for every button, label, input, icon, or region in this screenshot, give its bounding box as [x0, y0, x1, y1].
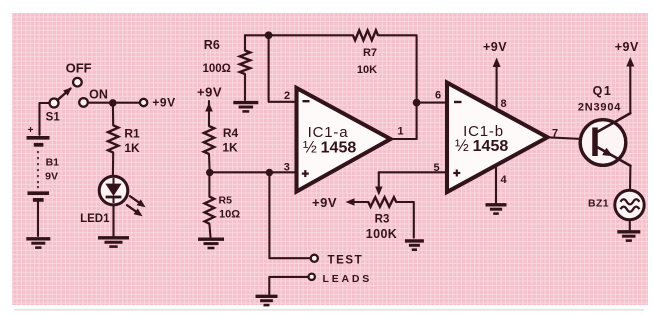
terminal LEADS [309, 274, 315, 280]
svg-text:7: 7 [552, 127, 558, 139]
svg-text:Q1: Q1 [593, 84, 613, 98]
label TEST [328, 255, 364, 267]
pin 8 label [501, 98, 507, 110]
LED light arrows [127, 196, 146, 216]
ground [256, 296, 278, 305]
label IC1-a [308, 124, 349, 141]
label BZ1 [588, 198, 609, 210]
wire [208, 154, 211, 173]
node junction [266, 169, 273, 176]
wire [244, 35, 246, 50]
terminal TEST [311, 255, 318, 262]
label OFF [66, 61, 92, 76]
wire [37, 202, 39, 236]
resistor R1 [108, 103, 118, 176]
svg-text:9V: 9V [45, 171, 58, 183]
pin 2 label [284, 90, 290, 102]
svg-text:1K: 1K [124, 141, 140, 155]
wire [396, 202, 414, 238]
ground [486, 205, 507, 214]
svg-text:5: 5 [433, 162, 439, 174]
svg-text:100Ω: 100Ω [203, 63, 231, 75]
wire [391, 138, 417, 140]
wire [209, 224, 210, 238]
label +9V [483, 40, 507, 54]
wire [244, 74, 246, 100]
wire [379, 171, 447, 173]
ground [405, 241, 424, 250]
pin 5 label [433, 162, 439, 174]
svg-text:+9V: +9V [152, 95, 175, 109]
LED LED1 [99, 176, 128, 205]
resistor R5 [205, 197, 215, 224]
wire [208, 173, 210, 197]
svg-text:10K: 10K [357, 64, 377, 76]
wire [210, 171, 296, 173]
svg-text:4: 4 [500, 174, 507, 186]
label S1 [46, 111, 61, 123]
node junction [206, 169, 213, 176]
svg-text:1: 1 [397, 126, 403, 138]
label +9V [197, 85, 222, 100]
svg-text:LEADS: LEADS [323, 273, 373, 285]
svg-text:2: 2 [284, 90, 290, 102]
label R3 [375, 213, 390, 225]
label R5 [219, 195, 233, 207]
label 1/2 1458 [455, 137, 508, 155]
svg-text:3: 3 [284, 161, 290, 173]
wire [88, 102, 140, 104]
wire [629, 166, 632, 191]
ground [617, 232, 640, 241]
svg-text:R7: R7 [363, 47, 377, 59]
svg-text:R1: R1 [124, 127, 140, 141]
ground [26, 239, 50, 248]
svg-text:LED1: LED1 [80, 213, 110, 225]
power +9V pin 8 [493, 58, 501, 109]
scan shadow line [14, 309, 644, 311]
svg-text:R3: R3 [375, 213, 390, 225]
pin 4 label [500, 174, 507, 186]
pin 3 label [284, 161, 290, 173]
svg-text:R5: R5 [219, 195, 233, 207]
svg-text:R4: R4 [223, 126, 239, 140]
svg-text:B1: B1 [46, 157, 60, 169]
node junction [265, 31, 273, 39]
wire [378, 35, 417, 139]
svg-text:½ 1458: ½ 1458 [303, 139, 356, 157]
label LED1 [80, 213, 110, 225]
label 2N3904 [578, 102, 621, 114]
svg-text:+9V: +9V [483, 40, 507, 54]
label 100K [366, 227, 397, 241]
wire [40, 103, 50, 135]
label 1K [124, 141, 140, 155]
svg-text:ON: ON [89, 88, 108, 102]
power +9V arrow [205, 101, 213, 126]
label R1 [124, 127, 140, 141]
resistor R3 [368, 197, 396, 207]
battery B1 [27, 125, 50, 200]
label Q1 [593, 84, 613, 98]
wire [245, 34, 353, 36]
svg-text:2N3904: 2N3904 [578, 102, 621, 114]
wire [269, 277, 308, 294]
label 10K [357, 64, 377, 76]
svg-text:TEST: TEST [328, 255, 364, 267]
switch S1 [50, 78, 88, 108]
svg-text:OFF: OFF [66, 61, 92, 76]
node junction [109, 99, 117, 107]
wire [548, 137, 593, 139]
label 9V [45, 171, 58, 183]
label ON [89, 88, 108, 102]
svg-text:+9V: +9V [197, 85, 222, 100]
transistor Q1 [580, 113, 630, 166]
label 100ohm [203, 63, 231, 75]
label LEADS [323, 273, 373, 285]
label R4 [223, 126, 239, 140]
buzzer BZ1 [615, 190, 644, 219]
svg-text:+: + [28, 125, 34, 136]
ground [233, 103, 258, 112]
resistor R7 [353, 30, 378, 40]
svg-text:1K: 1K [222, 140, 238, 154]
resistor R4 [204, 126, 214, 154]
ground [198, 239, 224, 248]
label +9V [312, 195, 337, 210]
svg-text:½ 1458: ½ 1458 [455, 137, 508, 155]
wire [112, 205, 114, 236]
label +9V [152, 95, 175, 109]
wire [269, 173, 310, 259]
svg-text:+9V: +9V [615, 40, 639, 54]
pot R3 wiper [375, 172, 383, 195]
label 10ohm [219, 209, 240, 221]
pin 7 label [552, 127, 558, 139]
label R6 [204, 38, 220, 52]
label B1 [46, 157, 60, 169]
label 1K [222, 140, 238, 154]
svg-text:BZ1: BZ1 [588, 198, 609, 210]
resistor R6 [240, 51, 250, 75]
power +9V arrow [346, 198, 355, 206]
ground [98, 238, 129, 247]
wire [354, 201, 369, 203]
op-amp IC1-b [447, 83, 548, 192]
svg-text:+9V: +9V [312, 195, 337, 210]
power +9V collector [626, 57, 634, 113]
op-amp IC1-a [297, 88, 391, 192]
label R7 [363, 47, 377, 59]
pin 6 label [435, 90, 441, 102]
svg-text:R6: R6 [204, 38, 220, 52]
node junction [413, 99, 421, 107]
svg-text:10Ω: 10Ω [219, 209, 240, 221]
svg-text:100K: 100K [366, 227, 397, 241]
wire [629, 220, 631, 230]
wire [269, 35, 296, 102]
wire [495, 168, 497, 203]
svg-text:S1: S1 [46, 111, 61, 123]
svg-text:8: 8 [501, 98, 507, 110]
label +9V [615, 40, 639, 54]
label IC1-b [463, 123, 504, 140]
terminal +9V [140, 99, 147, 106]
svg-text:6: 6 [435, 90, 441, 102]
label 1/2 1458 [303, 139, 356, 157]
wire [417, 102, 447, 104]
pin 1 label [397, 126, 403, 138]
